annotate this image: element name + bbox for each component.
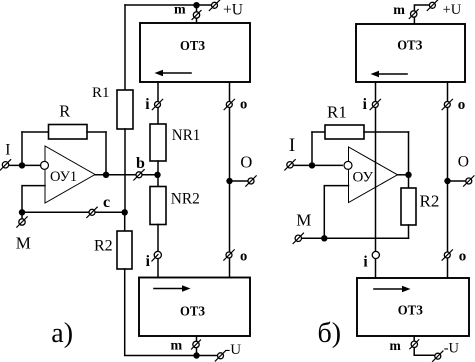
- block OT3 bottom-left: [139, 278, 250, 337]
- node M junction dot (left): [19, 209, 25, 215]
- svg-text:o: o: [459, 248, 467, 264]
- terminal I (right): [285, 160, 295, 170]
- resistor NR2: [150, 187, 166, 225]
- wire I to inverting input (right): [293, 164, 342, 166]
- terminal -U (left): [215, 351, 225, 361]
- terminal m circle (left bottom): [192, 340, 201, 349]
- svg-text:O: O: [240, 153, 252, 172]
- resistor R2 (left): [117, 231, 132, 269]
- wire feedback left leg: [21, 132, 23, 165]
- wire R2 bottom to -U rail: [125, 269, 218, 356]
- op-amp OU triangle: [349, 147, 398, 203]
- svg-text:а): а): [51, 318, 73, 349]
- svg-text:o: o: [240, 248, 247, 264]
- svg-text:R: R: [59, 102, 70, 121]
- block OT3 bottom-right: [357, 278, 469, 336]
- wire o (right): [447, 82, 449, 278]
- wire +U rail (right): [414, 5, 429, 24]
- terminal O circle (right): [464, 176, 474, 186]
- wire feedback down to output (right): [408, 132, 410, 175]
- node b junction dot: [154, 172, 160, 178]
- svg-text:-U: -U: [444, 341, 460, 357]
- terminal m circle (right bottom): [410, 340, 419, 349]
- wire noninverting input (right): [324, 186, 348, 239]
- wire feedback top left: [22, 131, 49, 133]
- arrow right (bottom-left block): [154, 285, 191, 291]
- node output junction dot (right): [405, 172, 411, 178]
- svg-text:ОТЗ: ОТЗ: [180, 305, 205, 320]
- resistor NR1: [150, 124, 166, 161]
- wire +U rail top (left): [125, 4, 212, 6]
- wire output to R2 (right): [408, 175, 410, 188]
- svg-text:б): б): [318, 318, 342, 349]
- wire feedback top left (right): [312, 131, 325, 133]
- terminal o upper circle (right): [442, 99, 452, 109]
- wire O tap (left): [230, 180, 249, 182]
- svg-text:М: М: [16, 234, 31, 253]
- op-amp OU1 inverting input bubble: [41, 161, 49, 169]
- svg-text:ОТЗ: ОТЗ: [398, 303, 423, 318]
- resistor R (feedback): [49, 125, 88, 140]
- terminal O circle (left): [246, 176, 256, 186]
- svg-text:i: i: [146, 253, 151, 270]
- wire node c to R2: [124, 212, 126, 231]
- terminal M circle (left): [17, 217, 27, 227]
- arrow left (top-left block): [155, 70, 192, 76]
- svg-text:o: o: [458, 97, 466, 113]
- terminal i upper circle (right): [370, 99, 380, 109]
- svg-text:I: I: [289, 135, 295, 156]
- node inverting input dot (left): [19, 162, 25, 168]
- wire +U rail down to R1: [124, 5, 126, 90]
- wire m stub bottom (right): [414, 336, 434, 355]
- svg-text:m: m: [390, 338, 402, 353]
- wire noninverting input (left): [22, 186, 45, 213]
- svg-text:m: m: [174, 3, 186, 18]
- wire feedback top right: [87, 131, 106, 133]
- svg-text:m: m: [393, 3, 405, 18]
- svg-text:+U: +U: [443, 2, 462, 18]
- op-amp OU1 triangle: [45, 146, 95, 203]
- wire i upper (left): [157, 82, 159, 124]
- svg-text:c: c: [103, 194, 110, 211]
- wire i (right): [375, 82, 377, 278]
- terminal c circle: [87, 207, 97, 217]
- wire M line (right): [302, 237, 409, 239]
- arrow right (bottom-right block): [374, 286, 411, 292]
- svg-text:O: O: [458, 153, 469, 170]
- svg-text:ОТЗ: ОТЗ: [180, 39, 205, 54]
- terminal i upper circle (left): [152, 99, 162, 109]
- wire R2 bottom (right): [408, 225, 410, 238]
- wire M stub: [21, 212, 23, 219]
- wire output (right): [398, 174, 409, 176]
- wire NR2 to bottom block: [157, 225, 159, 278]
- terminal o lower circle (left): [224, 250, 234, 260]
- svg-text:R2: R2: [94, 238, 113, 255]
- wire NR1 to node b: [157, 161, 159, 175]
- wire m stub into top OT3 block: [196, 5, 198, 23]
- wire O tap (right): [448, 180, 466, 182]
- resistor R1 (right): [325, 125, 364, 139]
- wire op-amp output to node b: [95, 174, 158, 176]
- terminal I (left): [0, 160, 10, 170]
- terminal +U (right): [427, 0, 437, 10]
- terminal o lower circle (right): [442, 250, 452, 260]
- svg-text:М: М: [296, 211, 311, 230]
- node inverting input dot (right): [309, 162, 315, 168]
- svg-text:-U: -U: [225, 342, 241, 358]
- svg-text:i: i: [145, 96, 150, 113]
- svg-text:NR1: NR1: [172, 127, 201, 144]
- terminal -U (right): [433, 351, 443, 361]
- terminal m circle (left top): [192, 11, 201, 20]
- wire R1 bottom down to node c: [124, 129, 126, 212]
- wire feedback top right (right): [364, 131, 409, 133]
- terminal i lower circle (left): [152, 251, 162, 261]
- terminal b circle: [134, 170, 144, 180]
- svg-text:i: i: [363, 96, 368, 113]
- node -U junction dot (left): [193, 352, 199, 358]
- svg-text:R2: R2: [420, 192, 440, 211]
- node O junction dot (left): [226, 178, 232, 184]
- wire feedback left leg (right): [311, 132, 313, 165]
- svg-text:ОТЗ: ОТЗ: [397, 38, 422, 53]
- wire feedback right leg down: [105, 132, 107, 175]
- svg-text:I: I: [5, 142, 10, 159]
- svg-text:b: b: [136, 155, 145, 172]
- wire I to inverting input: [9, 164, 41, 166]
- svg-text:+U: +U: [223, 2, 243, 19]
- svg-text:o: o: [240, 97, 247, 113]
- node m junction dot (left top): [193, 2, 199, 8]
- svg-text:m: m: [171, 339, 183, 354]
- node output junction dot (left): [103, 172, 109, 178]
- svg-text:R1: R1: [327, 102, 347, 121]
- node noninverting junction dot (right): [321, 235, 327, 241]
- block OT3 top-right: [356, 24, 465, 82]
- svg-text:i: i: [363, 254, 368, 271]
- resistor R1 (left): [117, 90, 133, 129]
- svg-text:R1: R1: [92, 85, 110, 101]
- terminal m circle (right top): [409, 10, 418, 19]
- block OT3 top-left: [140, 23, 250, 82]
- svg-text:NR2: NR2: [171, 191, 200, 208]
- op-amp OU inverting input bubble: [344, 161, 352, 169]
- wire node b to NR2: [157, 175, 159, 187]
- wire c line: [22, 211, 125, 213]
- terminal i lower circle (right): [372, 251, 379, 258]
- wire m stub from bottom OT3 block: [196, 336, 198, 356]
- terminal o upper circle (left): [224, 99, 234, 109]
- resistor R2 (right): [401, 188, 416, 225]
- svg-text:ОУ: ОУ: [353, 169, 374, 185]
- node c junction dot: [122, 209, 128, 215]
- arrow left (top-right block): [371, 71, 408, 77]
- terminal +U (left): [209, 0, 219, 10]
- node O junction dot (right): [444, 178, 450, 184]
- wire o (left): [229, 82, 231, 278]
- terminal M circle (right): [293, 233, 303, 243]
- svg-text:ОУ1: ОУ1: [50, 169, 77, 185]
